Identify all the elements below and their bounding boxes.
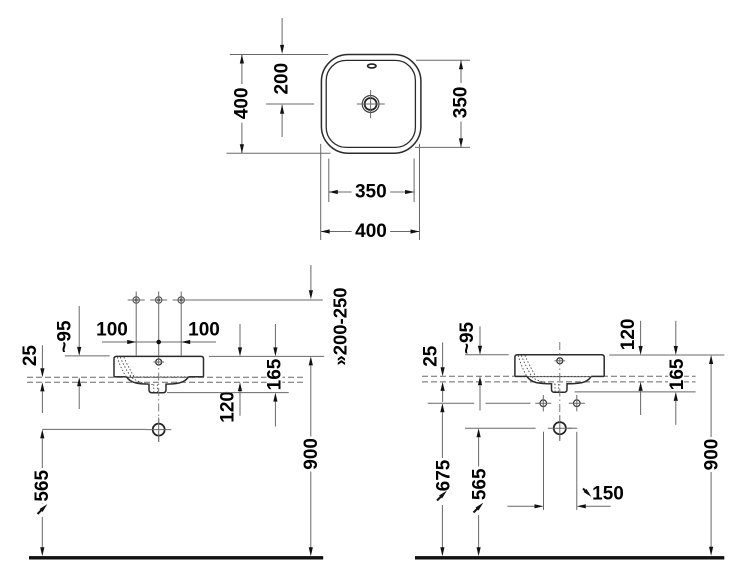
- node centre reference dot: [156, 340, 161, 345]
- label 900 left: [302, 437, 319, 472]
- wire extension line top edge: [230, 54, 328, 56]
- wire extension line 150 left: [543, 432, 545, 510]
- wire extension line drain centre left: [266, 103, 314, 105]
- centreline vertical: [158, 357, 160, 442]
- wire dimension 565 left line: [40, 429, 44, 438]
- wire dimension ~95 lower pointer (side): [478, 376, 482, 385]
- wire countertop dashed line lower: [422, 381, 696, 383]
- basin rim body (front view): [114, 356, 204, 376]
- drain crosshair horizontal: [357, 103, 385, 105]
- wire extension line tap holes right: [190, 299, 323, 301]
- wire extension line 150 right: [576, 432, 578, 510]
- svg-text:100: 100: [188, 320, 220, 341]
- svg-text:~95: ~95: [54, 320, 75, 353]
- label 400 bottom: [352, 223, 391, 239]
- wire dimension 165 lower pointer (side): [674, 392, 678, 401]
- wire countertop dashed line upper: [422, 375, 696, 377]
- drain outlet circle (side view): [554, 422, 566, 434]
- svg-text:100: 100: [96, 320, 128, 341]
- wire extension line rim left (side): [465, 354, 509, 356]
- rim bottom edge hidden dotted: [527, 375, 591, 377]
- hidden bowl hatch dotted c: [124, 358, 135, 378]
- TOP VIEW: [227, 18, 472, 242]
- svg-text:165: 165: [667, 358, 688, 390]
- wire dimension 400 left line: [241, 55, 243, 154]
- label 165 side: [668, 357, 684, 391]
- label 165: [267, 358, 283, 392]
- svg-text:150: 150: [592, 483, 624, 504]
- svg-text:200: 200: [272, 63, 293, 95]
- FRONT VIEW (lower left): [20, 265, 350, 560]
- svg-text:165: 165: [265, 358, 286, 390]
- variable dimension arrow 675: [437, 495, 443, 501]
- wire extension line inner right below: [413, 159, 415, 203]
- svg-text:120: 120: [218, 391, 239, 423]
- wire dimension 200 upper pointer: [281, 18, 283, 46]
- svg-text:120: 120: [618, 319, 639, 351]
- hidden drain stub dotted walls: [554, 384, 556, 391]
- tap hole 1: [128, 292, 145, 356]
- variable dimension arrow 565 side: [470, 502, 487, 516]
- wire countertop dashed line lower: [27, 381, 304, 383]
- hidden bowl hatch dotted c: [525, 356, 536, 376]
- basin rim body (side view): [515, 355, 604, 377]
- wire dimension 165 lower pointer: [273, 393, 277, 402]
- label 350 right: [452, 83, 468, 122]
- bowl underside profile (side view): [527, 376, 591, 392]
- rim bottom edge solid right: [189, 376, 204, 378]
- wire dimension 25 upper pointer (side): [442, 342, 444, 367]
- wire dimension 900 left line: [309, 356, 313, 365]
- svg-text:900: 900: [702, 439, 723, 471]
- label 350 bottom: [352, 183, 391, 199]
- overflow slot: [368, 64, 376, 68]
- faucet hole on rim deck (side view): [557, 358, 563, 364]
- centreline vertical (side view): [559, 342, 561, 441]
- wire dimension 350 bottom line: [329, 191, 414, 193]
- wire dimension 120 upper pointer: [239, 324, 241, 347]
- wire dimension 150 line: [507, 505, 534, 507]
- svg-text:400: 400: [231, 87, 252, 119]
- drain outlet circle (front view): [153, 424, 165, 436]
- wire countertop dashed line upper: [27, 376, 304, 378]
- wire dimension 675 line: [440, 403, 444, 412]
- wire dimension 200 lower pointer: [281, 105, 283, 137]
- rim bottom edge solid right: [591, 375, 604, 377]
- drain crosshair vertical: [370, 90, 372, 118]
- variable dimension arrow 565 left: [34, 504, 51, 518]
- svg-text:675: 675: [434, 459, 455, 491]
- wire dimension 350 right line: [460, 60, 462, 147]
- wire dimension 120 upper pointer (side): [640, 321, 642, 346]
- wire dimension 400 bottom line: [321, 231, 420, 233]
- label 565 left: [34, 468, 51, 503]
- wire extension line rim right: [209, 355, 324, 357]
- wire extension line drain centre (side): [465, 427, 536, 429]
- hidden drain stub dotted walls: [153, 385, 155, 392]
- wire dimension 165 upper pointer (side): [675, 321, 677, 346]
- hidden bowl hatch dotted a: [118, 358, 127, 377]
- label 565 side: [470, 467, 487, 502]
- wire extension line bottom edge: [227, 152, 331, 154]
- wire extension line inner left below: [328, 159, 330, 203]
- rim bottom edge solid left: [114, 376, 127, 378]
- drain inner circle: [365, 98, 377, 110]
- tap hole 3: [173, 292, 190, 356]
- SIDE VIEW (lower right): [415, 319, 724, 560]
- basin inner bowl edge (top view): [326, 60, 415, 147]
- svg-text:900: 900: [301, 438, 322, 470]
- drain outer circle: [362, 96, 379, 113]
- wire dimension 120 lower pointer (side): [639, 382, 643, 391]
- wire extension line rim right (side): [609, 354, 724, 356]
- svg-text:25: 25: [420, 345, 441, 367]
- svg-text:»200-250: »200-250: [329, 287, 350, 365]
- wire extension line wall holes left: [428, 402, 475, 404]
- svg-text:400: 400: [355, 221, 387, 242]
- wire dimension 565 line (side): [477, 428, 481, 437]
- label 675: [434, 458, 451, 493]
- tap hole 2: [150, 292, 167, 356]
- wire dimension 100-100 line: [102, 341, 216, 343]
- svg-text:~95: ~95: [457, 321, 478, 354]
- wire extension line right bottom (inner): [415, 146, 470, 148]
- wire extension line right top (inner): [416, 59, 470, 61]
- floor line left: [29, 556, 323, 559]
- wire extension line outer left below: [320, 144, 322, 240]
- label 900 right: [703, 437, 720, 472]
- svg-text:350: 350: [355, 182, 387, 203]
- hidden bowl hatch dotted a: [518, 356, 526, 376]
- basin outer rim (top view): [321, 55, 421, 154]
- wall fixing hole left: [535, 395, 551, 411]
- wire dimension 25 lower pointer (side): [441, 382, 445, 391]
- wire extension line outer right below: [419, 144, 421, 240]
- wire dimension ~95 lower pointer: [77, 377, 81, 386]
- hidden bowl hatch dotted b: [121, 358, 154, 385]
- wire dimension 25 lower pointer: [40, 382, 44, 391]
- wire dimension ~95 upper pointer: [78, 306, 80, 347]
- wire dimension 200-250 pointer: [310, 265, 312, 290]
- wall fixing hole right: [569, 395, 585, 411]
- svg-text:565: 565: [32, 470, 53, 502]
- hidden bowl hatch dotted b: [522, 356, 556, 384]
- wire extension line drain centre left: [42, 428, 146, 430]
- wire extension line basin bottom right: [167, 392, 289, 394]
- variable dimension arrow 150: [583, 489, 588, 494]
- floor line right: [415, 556, 724, 559]
- wire extension line rim left: [65, 355, 110, 357]
- wire dimension 120 lower pointer: [238, 382, 242, 391]
- wire dimension ~95 upper pointer (side): [479, 326, 481, 345]
- faucet hole on rim deck: [156, 359, 162, 365]
- svg-text:25: 25: [20, 345, 41, 367]
- bowl underside profile: [127, 377, 189, 393]
- wire dimension 900 right line: [709, 355, 713, 364]
- wire extension line basin bottom (side): [575, 391, 696, 393]
- wire dimension 25 upper pointer: [41, 345, 43, 368]
- wire dimension 165 upper pointer: [274, 324, 276, 347]
- label 400 left: [233, 84, 249, 123]
- rim bottom edge hidden dotted: [127, 376, 189, 378]
- svg-text:565: 565: [470, 468, 491, 500]
- rim bottom edge solid left: [515, 375, 527, 377]
- svg-text:350: 350: [450, 87, 471, 119]
